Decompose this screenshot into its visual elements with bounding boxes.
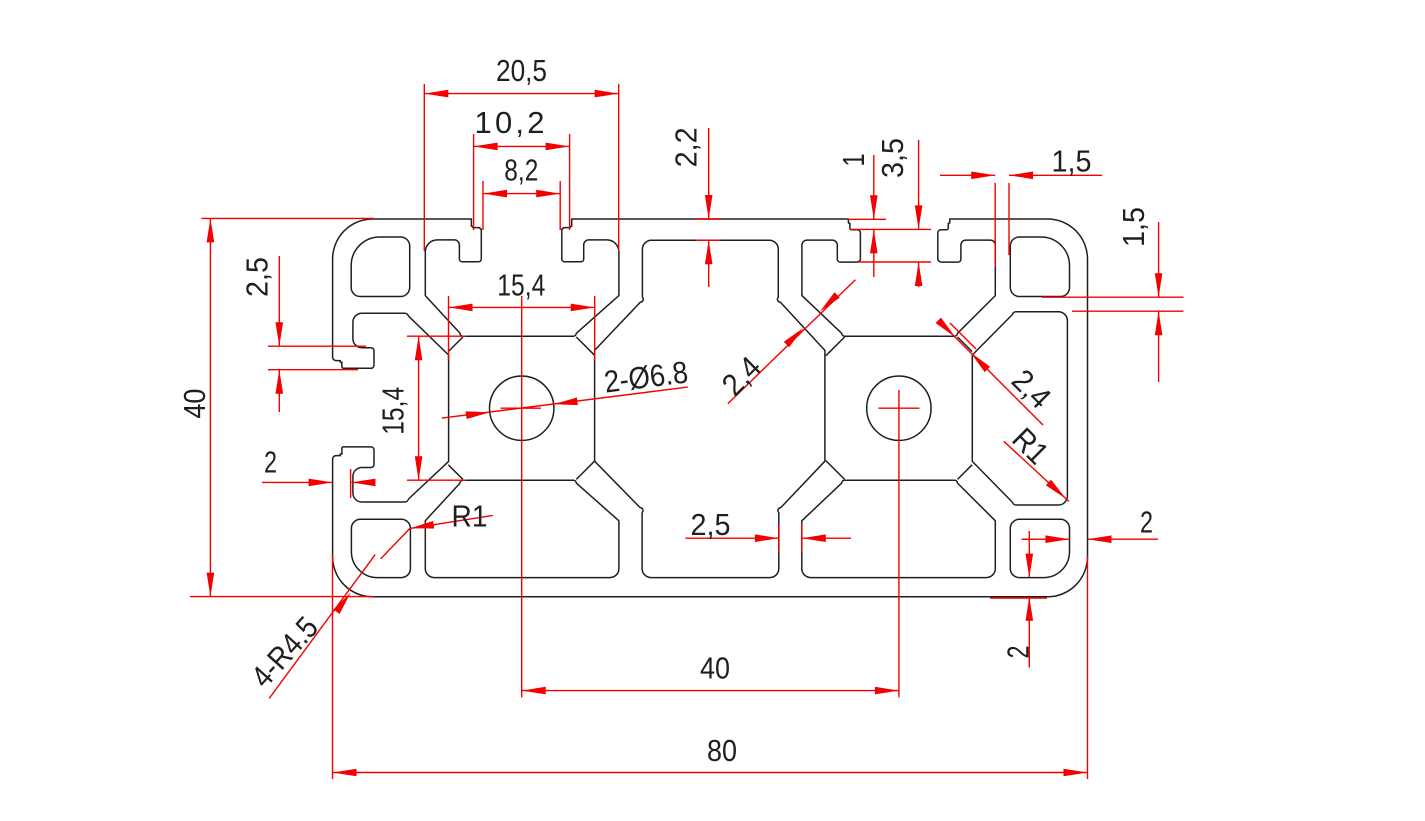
dim 80 bottom xyxy=(332,555,334,779)
dim 3,5 xyxy=(859,261,931,263)
bottom-left main cavity xyxy=(425,480,619,577)
svg-text:8,2: 8,2 xyxy=(504,153,538,188)
dim 8,2 xyxy=(482,181,484,230)
dim 1,5 top right xyxy=(994,183,996,267)
bottom-right corner cavity xyxy=(1010,519,1069,577)
leader 2-06.8 xyxy=(442,387,688,418)
column corner chamfer segments xyxy=(448,337,463,352)
svg-text:80: 80 xyxy=(707,733,737,768)
svg-text:3,5: 3,5 xyxy=(875,138,910,178)
dim 2,5 bottom center xyxy=(778,524,780,552)
svg-text:R1: R1 xyxy=(452,499,488,534)
leader R1 left xyxy=(381,516,492,559)
svg-text:2,5: 2,5 xyxy=(240,257,275,297)
top-left corner cavity xyxy=(351,237,410,297)
svg-text:1,5: 1,5 xyxy=(1052,144,1092,179)
svg-text:2: 2 xyxy=(1140,505,1153,540)
bottom-left corner cavity xyxy=(351,519,410,577)
dim 2 bottom right xyxy=(990,597,1047,599)
dim 2,4 left xyxy=(728,280,856,404)
dim 2 right xyxy=(1022,538,1070,540)
svg-text:15,4: 15,4 xyxy=(497,268,545,303)
svg-text:2,2: 2,2 xyxy=(669,127,704,167)
dim 2,2 xyxy=(696,218,721,220)
svg-text:20,5: 20,5 xyxy=(496,53,547,88)
svg-text:40: 40 xyxy=(177,389,212,419)
svg-text:1: 1 xyxy=(836,154,871,167)
svg-text:1,5: 1,5 xyxy=(1116,207,1151,247)
dim 2,4 right xyxy=(948,330,1043,425)
profile outer outline with T-slots xyxy=(333,219,1088,597)
leader R1 right xyxy=(1004,441,1069,501)
svg-text:2,5: 2,5 xyxy=(691,507,731,542)
dim 40 bottom xyxy=(522,690,899,692)
centerline right hole xyxy=(898,390,900,697)
svg-text:2: 2 xyxy=(264,445,277,480)
bottom-right main cavity xyxy=(802,480,996,577)
centerline left hole xyxy=(521,296,523,697)
svg-text:10,2: 10,2 xyxy=(475,105,548,140)
dim 2 left xyxy=(350,469,352,498)
dim 15,4 vertical xyxy=(407,335,466,337)
dim 2,5 left slot lip xyxy=(268,345,366,347)
dim 1,5 right side xyxy=(1042,296,1184,298)
leader 4-R4.5 xyxy=(269,555,375,699)
central cavity xyxy=(595,240,825,577)
dim 40 left xyxy=(201,217,374,219)
dim 10,2 xyxy=(473,134,475,230)
svg-text:15,4: 15,4 xyxy=(376,387,411,435)
core hole right xyxy=(867,376,931,440)
svg-text:2: 2 xyxy=(1001,646,1036,659)
top-right corner cavity xyxy=(1010,237,1069,297)
core hole left xyxy=(490,376,554,440)
dim 1 notch depth xyxy=(847,218,886,220)
svg-text:40: 40 xyxy=(700,651,730,686)
right side chamber cavity xyxy=(972,312,1067,505)
dim 15,4 horizontal xyxy=(448,296,450,360)
dim 20,5 top xyxy=(423,84,425,251)
